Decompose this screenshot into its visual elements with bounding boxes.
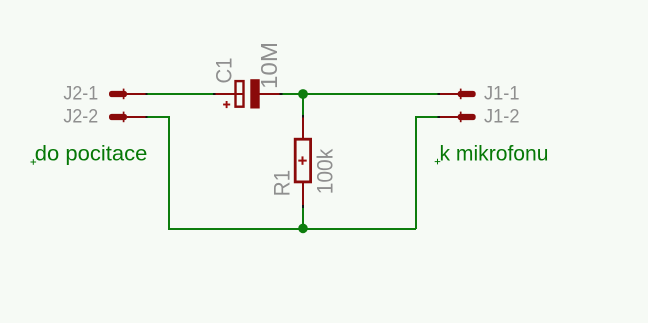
connector pin J1-2 bbox=[437, 112, 475, 123]
junction bottom node bbox=[298, 224, 308, 234]
wire net N$2: C1 right to junction to J1-1 bbox=[282, 93, 437, 95]
svg-text:do pocitace: do pocitace bbox=[35, 141, 148, 165]
resistor R1 bbox=[295, 115, 310, 208]
pin label J1-2 bbox=[484, 107, 520, 128]
svg-text:k mikrofonu: k mikrofonu bbox=[440, 141, 549, 165]
label R1 value 100k bbox=[313, 148, 338, 194]
capacitor C1 plus polarity mark bbox=[223, 101, 230, 108]
net label origin cross right bbox=[435, 159, 441, 165]
svg-text:R1: R1 bbox=[269, 170, 294, 197]
label C1 value 10M bbox=[256, 42, 282, 89]
connector pin J1-1 bbox=[437, 89, 475, 100]
label C1 name bbox=[212, 58, 237, 84]
connector pin J2-2 bbox=[109, 112, 148, 123]
wire net N$1 top: J2-1 to C1 bbox=[148, 93, 214, 95]
resistor R1 origin cross bbox=[298, 156, 306, 164]
wire net GND right: bottom up to J1-2 bbox=[416, 117, 437, 229]
svg-text:10M: 10M bbox=[256, 42, 282, 89]
net label origin cross left bbox=[31, 159, 37, 165]
pin label J2-1 bbox=[63, 83, 98, 104]
wire vertical: junction to R1 top bbox=[302, 94, 304, 115]
wire net GND left: J2-2 down and along bottom bbox=[148, 117, 417, 229]
connector pin J2-1 bbox=[109, 89, 148, 100]
net label k mikrofonu bbox=[440, 141, 549, 165]
svg-text:J2-2: J2-2 bbox=[63, 107, 98, 128]
svg-text:J1-1: J1-1 bbox=[484, 84, 520, 105]
svg-text:J2-1: J2-1 bbox=[63, 83, 98, 104]
svg-text:C1: C1 bbox=[212, 58, 237, 84]
junction top node bbox=[298, 89, 308, 99]
net label do pocitace bbox=[35, 141, 148, 165]
wire vertical: R1 bottom to bottom junction bbox=[302, 208, 304, 229]
svg-text:100k: 100k bbox=[313, 148, 338, 194]
pin label J1-1 bbox=[484, 84, 520, 105]
pin label J2-2 bbox=[63, 107, 98, 128]
capacitor C1 bbox=[213, 79, 282, 108]
label R1 name bbox=[269, 170, 294, 197]
svg-text:J1-2: J1-2 bbox=[484, 107, 520, 128]
